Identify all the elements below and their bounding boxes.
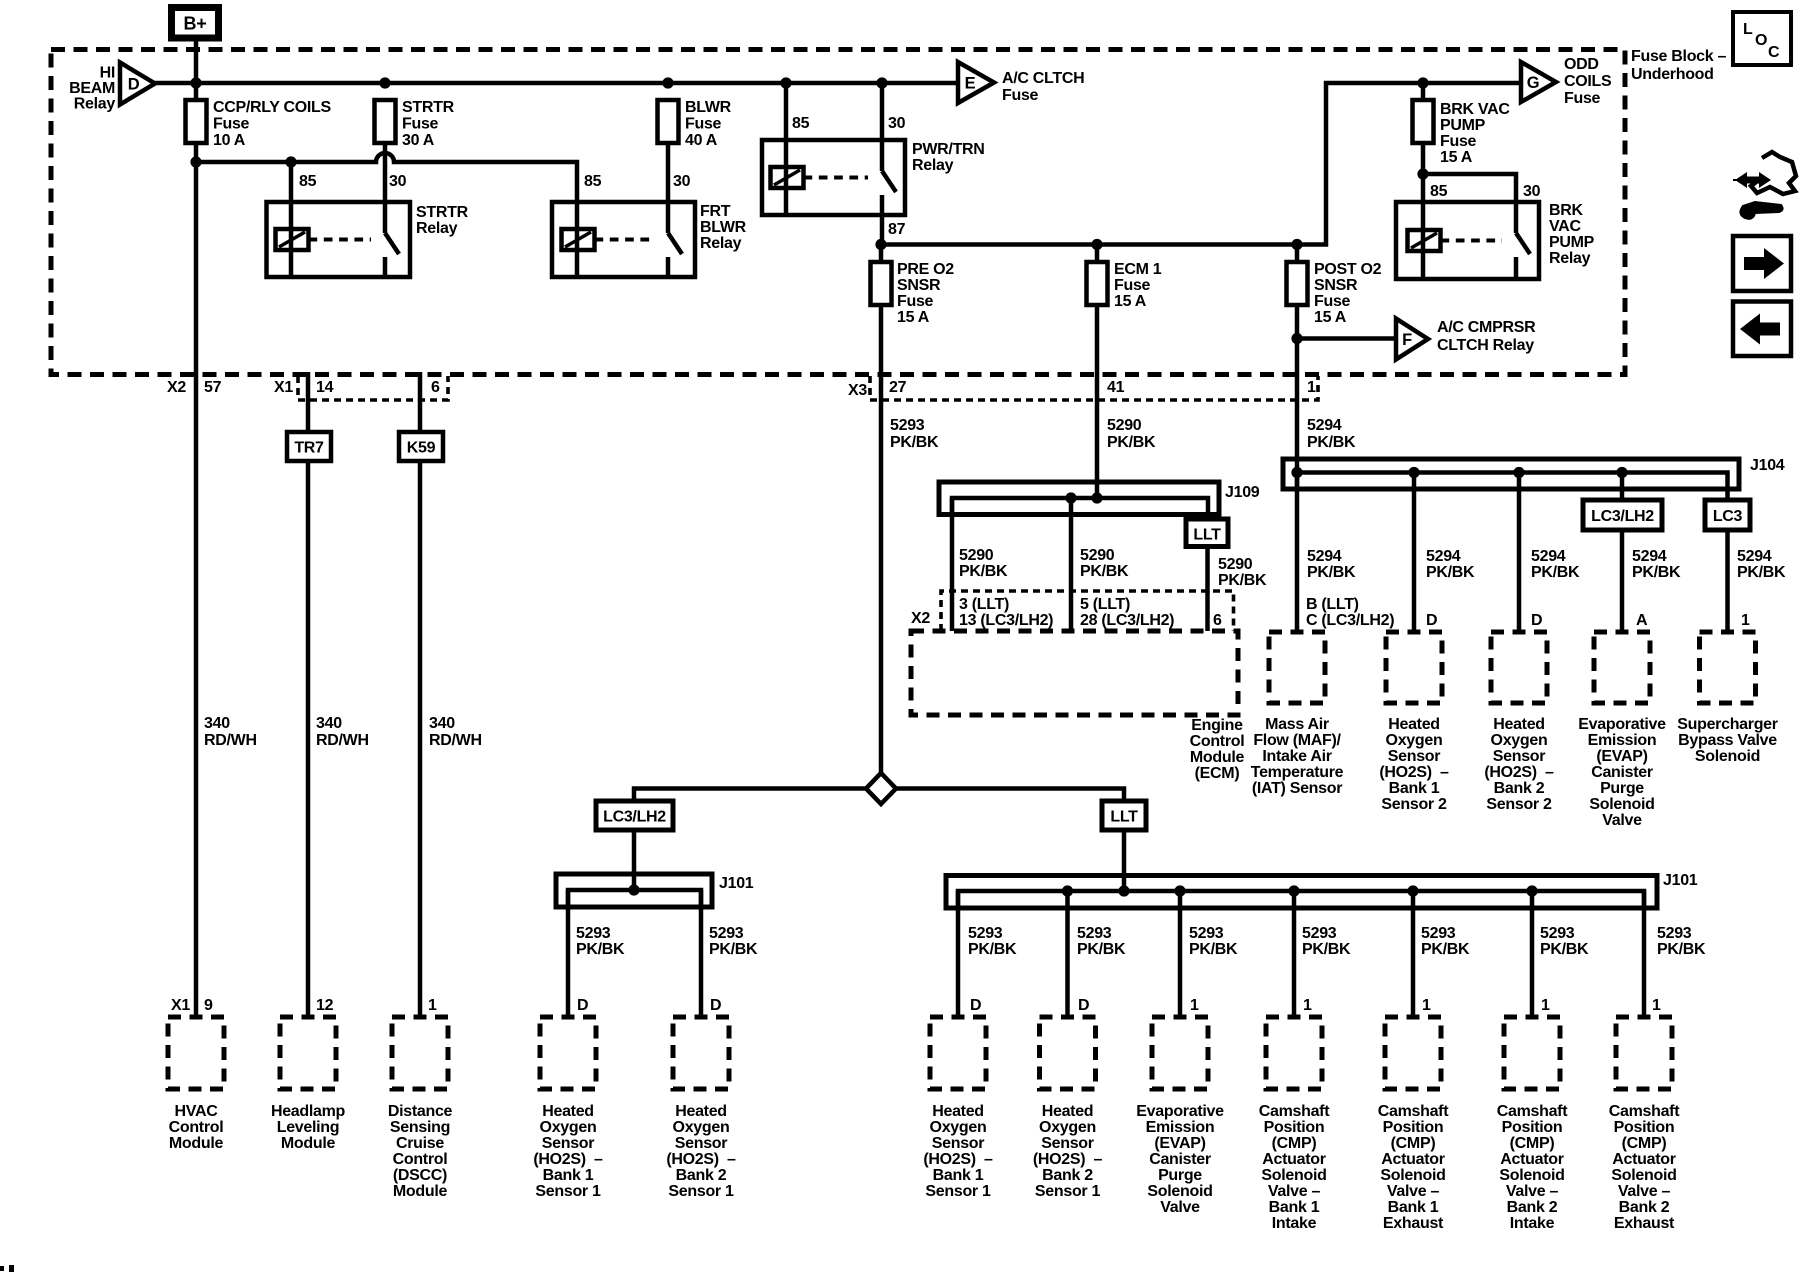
svg-text:1: 1 bbox=[1190, 997, 1199, 1014]
svg-text:87: 87 bbox=[888, 221, 906, 238]
svg-text:PK/BK: PK/BK bbox=[1080, 563, 1129, 580]
component dashed box Heated Oxygen Sensor HO2S Bank2 Sensor2 bbox=[1491, 632, 1547, 703]
svg-text:5293: 5293 bbox=[576, 925, 611, 942]
svg-text:85: 85 bbox=[792, 115, 810, 132]
svg-text:Fuse Block –: Fuse Block – bbox=[1631, 48, 1727, 65]
svg-text:(HO2S) –: (HO2S) – bbox=[1484, 764, 1554, 781]
junction node PRE O2 fuse top bbox=[875, 239, 886, 250]
svg-text:15 A: 15 A bbox=[1314, 309, 1347, 326]
svg-text:Solenoid: Solenoid bbox=[1611, 1167, 1676, 1184]
svg-text:Purge: Purge bbox=[1600, 780, 1644, 797]
svg-text:Relay: Relay bbox=[700, 235, 742, 252]
relay STRTR bbox=[267, 202, 411, 277]
svg-text:Oxygen: Oxygen bbox=[673, 1119, 730, 1136]
splice box LC3/LH2 lower bbox=[596, 801, 673, 830]
svg-text:BRK VAC: BRK VAC bbox=[1440, 101, 1510, 118]
junction node STRTR fuse bbox=[379, 77, 390, 88]
svg-text:Module: Module bbox=[169, 1135, 224, 1152]
svg-text:Actuator: Actuator bbox=[1262, 1151, 1325, 1168]
fuse CCP/RLY COILS 10A bbox=[186, 100, 207, 143]
svg-text:57: 57 bbox=[204, 379, 222, 396]
svg-text:D: D bbox=[128, 76, 140, 94]
wire diamond to LC3/LH2 splice bbox=[634, 789, 866, 802]
svg-text:30: 30 bbox=[673, 173, 691, 190]
svg-text:15 A: 15 A bbox=[897, 309, 930, 326]
svg-text:Sensor: Sensor bbox=[675, 1135, 728, 1152]
svg-text:Bank 1: Bank 1 bbox=[1269, 1199, 1320, 1216]
junction node J109 branch bbox=[1065, 492, 1076, 503]
wire J104 to supercharger bypass solenoid bbox=[1725, 530, 1730, 631]
svg-text:Bank 1: Bank 1 bbox=[543, 1167, 594, 1184]
relay PWR/TRN bbox=[762, 140, 905, 215]
svg-text:B+: B+ bbox=[184, 14, 207, 34]
svg-text:Sensor: Sensor bbox=[1493, 748, 1546, 765]
component dashed box CMP Actuator Solenoid Valve Bank1 Intake bbox=[1266, 1017, 1322, 1089]
svg-text:PK/BK: PK/BK bbox=[1077, 941, 1126, 958]
svg-text:Leveling: Leveling bbox=[277, 1119, 340, 1136]
svg-text:C: C bbox=[1768, 44, 1780, 61]
svg-text:Bank 2: Bank 2 bbox=[1494, 780, 1545, 797]
svg-text:Bank 2: Bank 2 bbox=[676, 1167, 727, 1184]
splice diamond on PRE O2 circuit bbox=[866, 773, 896, 804]
svg-text:30: 30 bbox=[1523, 183, 1541, 200]
svg-text:Oxygen: Oxygen bbox=[1386, 732, 1443, 749]
wire J101 to EVAP valve bbox=[1178, 891, 1183, 1017]
svg-text:Bank 1: Bank 1 bbox=[1389, 780, 1440, 797]
svg-text:E: E bbox=[965, 75, 976, 93]
svg-text:340: 340 bbox=[204, 715, 230, 732]
svg-text:6: 6 bbox=[1213, 612, 1222, 629]
svg-text:Flow (MAF)/: Flow (MAF)/ bbox=[1253, 732, 1341, 749]
svg-text:Fuse: Fuse bbox=[213, 116, 250, 133]
svg-text:1: 1 bbox=[1303, 997, 1312, 1014]
svg-text:Valve –: Valve – bbox=[1387, 1183, 1440, 1200]
svg-text:Fuse: Fuse bbox=[685, 116, 722, 133]
svg-text:Heated: Heated bbox=[542, 1103, 594, 1120]
triangle F A/C CMPRSR CLTCH Relay bbox=[1396, 319, 1428, 360]
svg-text:Bank 2: Bank 2 bbox=[1619, 1199, 1670, 1216]
wire J101 to CMP bank2 exhaust bbox=[1642, 891, 1647, 1017]
svg-text:Position: Position bbox=[1264, 1119, 1325, 1136]
svg-text:Exhaust: Exhaust bbox=[1383, 1215, 1444, 1232]
svg-text:Valve –: Valve – bbox=[1268, 1183, 1321, 1200]
junction node BLWR fuse bbox=[662, 77, 673, 88]
svg-text:CLTCH Relay: CLTCH Relay bbox=[1437, 337, 1534, 354]
svg-text:85: 85 bbox=[1430, 183, 1448, 200]
wire J104 to HO2S bank1 sensor2 bbox=[1412, 473, 1417, 632]
svg-text:PK/BK: PK/BK bbox=[576, 941, 625, 958]
svg-text:5290: 5290 bbox=[1080, 547, 1115, 564]
back arrow box bbox=[1733, 302, 1791, 357]
wire BRK VAC fuse to relay bbox=[1421, 143, 1426, 202]
svg-text:PK/BK: PK/BK bbox=[890, 434, 939, 451]
junction block J104 bbox=[1283, 459, 1739, 489]
junction block J101 left bbox=[556, 874, 712, 907]
junction node J101 right bbox=[1062, 885, 1073, 896]
svg-text:(CMP): (CMP) bbox=[1391, 1135, 1436, 1152]
wire PRE O2 fuse down to splice diamond bbox=[879, 305, 884, 773]
junction node feed to relay coils bbox=[190, 156, 201, 167]
svg-text:Fuse: Fuse bbox=[1440, 133, 1477, 150]
svg-text:Solenoid: Solenoid bbox=[1695, 748, 1760, 765]
fuse block underhood dashed enclosure bbox=[51, 50, 1625, 375]
svg-text:D: D bbox=[1531, 612, 1542, 629]
svg-text:Sensor 2: Sensor 2 bbox=[1381, 796, 1447, 813]
svg-text:PK/BK: PK/BK bbox=[959, 563, 1008, 580]
svg-text:5294: 5294 bbox=[1531, 548, 1566, 565]
junction node J101 right bbox=[1288, 885, 1299, 896]
svg-text:F: F bbox=[1402, 331, 1412, 349]
svg-text:X1: X1 bbox=[171, 997, 190, 1014]
svg-text:PK/BK: PK/BK bbox=[1657, 941, 1706, 958]
svg-text:J101: J101 bbox=[719, 875, 754, 892]
svg-text:Valve –: Valve – bbox=[1506, 1183, 1559, 1200]
wire J104 to EVAP valve bbox=[1620, 473, 1625, 501]
component dashed box Supercharger Bypass Valve Solenoid bbox=[1700, 632, 1756, 703]
svg-text:Heated: Heated bbox=[675, 1103, 727, 1120]
svg-text:D: D bbox=[1426, 612, 1437, 629]
svg-text:Evaporative: Evaporative bbox=[1578, 716, 1666, 733]
connector X3 pocket dashed bbox=[870, 376, 1318, 400]
svg-text:Camshaft: Camshaft bbox=[1497, 1103, 1568, 1120]
svg-text:Intake: Intake bbox=[1272, 1215, 1317, 1232]
svg-text:1: 1 bbox=[1541, 997, 1550, 1014]
svg-text:85: 85 bbox=[584, 173, 602, 190]
junction node J101 left feed bbox=[628, 884, 639, 895]
fuse PRE O2 SNSR 15A bbox=[879, 245, 884, 263]
fuse BRK VAC PUMP 15A bbox=[1421, 83, 1426, 100]
fuse ECM 1 15A bbox=[1095, 245, 1100, 263]
svg-text:5293: 5293 bbox=[1540, 925, 1575, 942]
component dashed box HO2S Bank1 Sensor1 left bbox=[540, 1017, 596, 1089]
component dashed box HVAC Control Module bbox=[168, 1017, 224, 1089]
svg-text:RD/WH: RD/WH bbox=[429, 732, 482, 749]
wire J104 to MAF/IAT sensor bbox=[1295, 473, 1300, 632]
svg-text:(EVAP): (EVAP) bbox=[1596, 748, 1647, 765]
svg-text:(HO2S) –: (HO2S) – bbox=[1379, 764, 1449, 781]
wire STRTR fuse to relay 30 bbox=[383, 143, 388, 202]
svg-text:5 (LLT): 5 (LLT) bbox=[1080, 596, 1130, 613]
fuse BLWR 40A bbox=[658, 100, 679, 143]
svg-text:SNSR: SNSR bbox=[1314, 277, 1358, 294]
svg-text:HVAC: HVAC bbox=[175, 1103, 219, 1120]
svg-text:Fuse: Fuse bbox=[1564, 90, 1601, 107]
splice box K59 bbox=[399, 432, 443, 461]
svg-text:(HO2S) –: (HO2S) – bbox=[666, 1151, 736, 1168]
wire LLT to ECM pin 6 bbox=[1205, 547, 1210, 632]
svg-text:Oxygen: Oxygen bbox=[540, 1119, 597, 1136]
svg-text:Sensor 2: Sensor 2 bbox=[1486, 796, 1552, 813]
svg-text:Solenoid: Solenoid bbox=[1380, 1167, 1445, 1184]
junction node ECM1 fuse top bbox=[1091, 239, 1102, 250]
svg-text:J109: J109 bbox=[1225, 484, 1260, 501]
splice box LC3 on J104 bbox=[1705, 500, 1750, 530]
wire STRTR relay 85 up bbox=[289, 162, 294, 202]
svg-text:COILS: COILS bbox=[1564, 73, 1612, 90]
svg-text:Distance: Distance bbox=[388, 1103, 453, 1120]
component dashed box CMP Actuator Solenoid Valve Bank2 Intake bbox=[1504, 1017, 1560, 1089]
svg-text:1: 1 bbox=[1422, 997, 1431, 1014]
svg-text:Module: Module bbox=[281, 1135, 336, 1152]
svg-text:PUMP: PUMP bbox=[1440, 117, 1486, 134]
svg-text:Engine: Engine bbox=[1191, 717, 1243, 734]
svg-text:X3: X3 bbox=[848, 382, 867, 399]
svg-text:LLT: LLT bbox=[1193, 527, 1221, 544]
svg-text:(HO2S) –: (HO2S) – bbox=[533, 1151, 603, 1168]
component dashed box CMP Actuator Solenoid Valve Bank1 Exhaust bbox=[1385, 1017, 1441, 1089]
svg-text:PK/BK: PK/BK bbox=[1189, 941, 1238, 958]
wire J101 to CMP bank1 intake bbox=[1292, 891, 1297, 1017]
svg-text:5294: 5294 bbox=[1632, 548, 1667, 565]
svg-text:Actuator: Actuator bbox=[1500, 1151, 1563, 1168]
svg-text:(CMP): (CMP) bbox=[1510, 1135, 1555, 1152]
svg-text:Supercharger: Supercharger bbox=[1677, 716, 1778, 733]
svg-text:Sensor 1: Sensor 1 bbox=[535, 1183, 601, 1200]
wire J104 to HO2S bank2 sensor2 bbox=[1517, 473, 1522, 632]
svg-text:Bank 2: Bank 2 bbox=[1507, 1199, 1558, 1216]
svg-text:K59: K59 bbox=[407, 440, 436, 457]
svg-text:1: 1 bbox=[1307, 379, 1316, 396]
svg-text:(ECM): (ECM) bbox=[1195, 765, 1240, 782]
svg-text:(IAT) Sensor: (IAT) Sensor bbox=[1252, 780, 1342, 797]
wire J101 to HO2S bank1 sensor1 bbox=[956, 891, 961, 1017]
svg-text:5290: 5290 bbox=[1107, 417, 1142, 434]
svg-text:3 (LLT): 3 (LLT) bbox=[959, 596, 1009, 613]
splice box LLT lower bbox=[1102, 801, 1146, 830]
svg-text:Camshaft: Camshaft bbox=[1609, 1103, 1680, 1120]
svg-text:30: 30 bbox=[888, 115, 906, 132]
svg-text:Sensor 1: Sensor 1 bbox=[668, 1183, 734, 1200]
svg-text:85: 85 bbox=[299, 173, 317, 190]
wire B+ down to bus bbox=[194, 41, 199, 100]
wire to A/C CMPRSR CLTCH relay bbox=[1297, 336, 1396, 341]
svg-text:LC3/LH2: LC3/LH2 bbox=[603, 809, 666, 826]
svg-text:Cruise: Cruise bbox=[396, 1135, 444, 1152]
wire PWR/TRN 87 down bbox=[880, 215, 885, 245]
svg-text:Control: Control bbox=[1190, 733, 1245, 750]
svg-text:Solenoid: Solenoid bbox=[1261, 1167, 1326, 1184]
svg-text:B (LLT): B (LLT) bbox=[1306, 596, 1359, 613]
svg-text:VAC: VAC bbox=[1549, 218, 1581, 235]
wire coil feed with hop over STRTR-30 wire bbox=[196, 153, 577, 202]
svg-text:41: 41 bbox=[1107, 379, 1125, 396]
svg-text:(EVAP): (EVAP) bbox=[1154, 1135, 1205, 1152]
svg-text:L: L bbox=[1743, 21, 1753, 38]
component dashed box CMP Actuator Solenoid Valve Bank2 Exhaust bbox=[1616, 1017, 1672, 1089]
svg-text:PK/BK: PK/BK bbox=[709, 941, 758, 958]
svg-text:5293: 5293 bbox=[1657, 925, 1692, 942]
svg-text:PK/BK: PK/BK bbox=[1218, 572, 1267, 589]
svg-text:POST O2: POST O2 bbox=[1314, 261, 1382, 278]
svg-text:J104: J104 bbox=[1750, 457, 1785, 474]
svg-text:5293: 5293 bbox=[1302, 925, 1337, 942]
junction node BRK VAC relay 85/30 split bbox=[1417, 168, 1428, 179]
svg-text:PK/BK: PK/BK bbox=[1426, 564, 1475, 581]
component dashed box Headlamp Leveling Module bbox=[280, 1017, 336, 1089]
svg-text:FRT: FRT bbox=[700, 203, 731, 220]
svg-text:(CMP): (CMP) bbox=[1622, 1135, 1667, 1152]
junction node J104 bbox=[1616, 467, 1627, 478]
svg-text:340: 340 bbox=[429, 715, 455, 732]
svg-text:Control: Control bbox=[169, 1119, 224, 1136]
splice box LLT on J109 bbox=[1186, 519, 1228, 547]
svg-text:BEAM: BEAM bbox=[69, 80, 115, 97]
Engine Control Module ECM dashed box bbox=[911, 631, 1238, 715]
wire 6 down to DSCC module bbox=[418, 372, 423, 432]
svg-text:Fuse: Fuse bbox=[897, 293, 934, 310]
junction node J101 right bbox=[1526, 885, 1537, 896]
wire J101 to CMP bank2 intake bbox=[1530, 891, 1535, 1017]
svg-text:Headlamp: Headlamp bbox=[271, 1103, 346, 1120]
wire LC3/LH2 to J101 left bbox=[632, 830, 637, 890]
svg-text:Fuse: Fuse bbox=[1002, 87, 1039, 104]
svg-text:PRE O2: PRE O2 bbox=[897, 261, 954, 278]
svg-text:PK/BK: PK/BK bbox=[1307, 564, 1356, 581]
svg-text:Oxygen: Oxygen bbox=[1039, 1119, 1096, 1136]
svg-text:PK/BK: PK/BK bbox=[1632, 564, 1681, 581]
svg-text:Bank 1: Bank 1 bbox=[1388, 1199, 1439, 1216]
relay FRT BLWR bbox=[552, 202, 695, 277]
svg-text:LLT: LLT bbox=[1110, 809, 1138, 826]
svg-text:5293: 5293 bbox=[1421, 925, 1456, 942]
LOC legend box bbox=[1733, 12, 1791, 65]
svg-text:15 A: 15 A bbox=[1114, 293, 1147, 310]
svg-text:BRK: BRK bbox=[1549, 202, 1584, 219]
svg-text:5290: 5290 bbox=[1218, 556, 1253, 573]
junction node at B+ drop bbox=[190, 77, 201, 88]
svg-text:5293: 5293 bbox=[1077, 925, 1112, 942]
junction node J101 right bbox=[1407, 885, 1418, 896]
wire J109 to ECM pin 3 bbox=[950, 498, 955, 631]
svg-text:(HO2S) –: (HO2S) – bbox=[923, 1151, 993, 1168]
wire J101 to HO2S bank2 sensor1 bbox=[1065, 891, 1070, 1017]
svg-text:PK/BK: PK/BK bbox=[968, 941, 1017, 958]
svg-text:1: 1 bbox=[1652, 997, 1661, 1014]
svg-text:5294: 5294 bbox=[1426, 548, 1461, 565]
svg-text:PK/BK: PK/BK bbox=[1737, 564, 1786, 581]
svg-text:Fuse: Fuse bbox=[1314, 293, 1351, 310]
svg-text:5294: 5294 bbox=[1737, 548, 1772, 565]
svg-text:Fuse: Fuse bbox=[402, 116, 439, 133]
wire X1-14 down to headlamp module bbox=[306, 372, 311, 432]
junction node J101 right bbox=[1118, 885, 1129, 896]
svg-text:30: 30 bbox=[389, 173, 407, 190]
svg-text:Valve: Valve bbox=[1160, 1199, 1200, 1216]
svg-text:X1: X1 bbox=[274, 379, 293, 396]
wire PWR/TRN 85 up to bus bbox=[784, 83, 789, 140]
svg-text:Camshaft: Camshaft bbox=[1378, 1103, 1449, 1120]
wire LLT to J101 right bbox=[1122, 830, 1127, 891]
component dashed box Distance Sensing Cruise Control DSCC Module bbox=[392, 1017, 448, 1089]
svg-text:Exhaust: Exhaust bbox=[1614, 1215, 1675, 1232]
svg-text:Emission: Emission bbox=[1588, 732, 1657, 749]
svg-text:Sensor: Sensor bbox=[1388, 748, 1441, 765]
svg-text:Camshaft: Camshaft bbox=[1259, 1103, 1330, 1120]
svg-text:C (LC3/LH2): C (LC3/LH2) bbox=[1306, 612, 1394, 629]
component dashed box Mass Air Flow (MAF)/Intake Air Temperature (IAT) Sensor bbox=[1269, 632, 1325, 703]
svg-text:Valve: Valve bbox=[1602, 812, 1642, 829]
svg-text:G: G bbox=[1527, 74, 1540, 92]
svg-text:Actuator: Actuator bbox=[1381, 1151, 1444, 1168]
svg-text:LC3/LH2: LC3/LH2 bbox=[1591, 508, 1654, 525]
svg-text:A: A bbox=[1636, 612, 1648, 629]
component dashed box EVAP Canister Purge Solenoid Valve bbox=[1594, 632, 1650, 703]
svg-text:Relay: Relay bbox=[416, 220, 458, 237]
wire POST O2 fuse down to J104 bbox=[1295, 305, 1300, 473]
svg-text:12: 12 bbox=[316, 997, 334, 1014]
svg-text:5293: 5293 bbox=[709, 925, 744, 942]
svg-text:Position: Position bbox=[1502, 1119, 1563, 1136]
wire CCP fuse down to X2-57 and HVAC bbox=[194, 143, 199, 1017]
svg-text:27: 27 bbox=[889, 379, 907, 396]
svg-text:14: 14 bbox=[316, 379, 334, 396]
svg-text:15 A: 15 A bbox=[1440, 149, 1473, 166]
triangle E A/C CLTCH Fuse bbox=[958, 62, 994, 103]
junction node STRTR relay 85 bbox=[285, 156, 296, 167]
svg-text:Intake Air: Intake Air bbox=[1262, 748, 1331, 765]
triangle D HI BEAM Relay feed bbox=[120, 63, 155, 105]
connector X2 ECM pocket dashed bbox=[941, 591, 1234, 631]
wire J101 to CMP bank1 exhaust bbox=[1411, 891, 1416, 1017]
svg-text:Solenoid: Solenoid bbox=[1589, 796, 1654, 813]
svg-text:A/C CMPRSR: A/C CMPRSR bbox=[1437, 319, 1536, 336]
svg-text:Underhood: Underhood bbox=[1631, 66, 1714, 83]
svg-text:Actuator: Actuator bbox=[1612, 1151, 1675, 1168]
svg-text:STRTR: STRTR bbox=[402, 99, 455, 116]
svg-text:Relay: Relay bbox=[912, 157, 954, 174]
svg-text:Module: Module bbox=[393, 1183, 448, 1200]
component dashed box HO2S Bank1 Sensor1 right bbox=[930, 1017, 986, 1089]
svg-text:TR7: TR7 bbox=[294, 440, 324, 457]
svg-text:RD/WH: RD/WH bbox=[316, 732, 369, 749]
svg-text:Bank 1: Bank 1 bbox=[933, 1167, 984, 1184]
svg-text:D: D bbox=[577, 997, 588, 1014]
fuse STRTR 30A bbox=[375, 100, 396, 143]
svg-text:PK/BK: PK/BK bbox=[1531, 564, 1580, 581]
svg-text:Bank 2: Bank 2 bbox=[1042, 1167, 1093, 1184]
ignition feed wire 87 across and up to ODD COILS bbox=[882, 83, 1521, 245]
wire J101 to HO2S bank2 sensor1 left bbox=[699, 890, 704, 1017]
svg-text:Mass Air: Mass Air bbox=[1265, 716, 1329, 733]
svg-text:Temperature: Temperature bbox=[1251, 764, 1344, 781]
junction node POST O2 fuse top bbox=[1291, 239, 1302, 250]
svg-text:PK/BK: PK/BK bbox=[1421, 941, 1470, 958]
main power bus wire y83 bbox=[155, 81, 958, 86]
svg-text:(DSCC): (DSCC) bbox=[393, 1167, 447, 1184]
svg-text:PK/BK: PK/BK bbox=[1302, 941, 1351, 958]
svg-text:O: O bbox=[1755, 32, 1767, 49]
svg-text:1: 1 bbox=[428, 997, 437, 1014]
svg-text:(CMP): (CMP) bbox=[1272, 1135, 1317, 1152]
forward arrow box bbox=[1733, 236, 1791, 291]
svg-text:5293: 5293 bbox=[890, 417, 925, 434]
junction node BRK VAC fuse top bbox=[1417, 77, 1428, 88]
navigation scribble icon bbox=[1733, 152, 1796, 219]
svg-text:ECM 1: ECM 1 bbox=[1114, 261, 1162, 278]
svg-text:1: 1 bbox=[1741, 612, 1750, 629]
svg-text:Sensor: Sensor bbox=[932, 1135, 985, 1152]
wire ECM1 fuse down to J109 bbox=[1095, 305, 1100, 498]
connector X1 pocket dashed bbox=[298, 376, 448, 400]
svg-text:(HO2S) –: (HO2S) – bbox=[1033, 1151, 1103, 1168]
splice box LC3/LH2 on J104 bbox=[1583, 500, 1662, 530]
svg-text:Sensor: Sensor bbox=[1041, 1135, 1094, 1152]
svg-text:RD/WH: RD/WH bbox=[204, 732, 257, 749]
svg-text:Oxygen: Oxygen bbox=[1491, 732, 1548, 749]
svg-text:Evaporative: Evaporative bbox=[1136, 1103, 1224, 1120]
svg-text:D: D bbox=[710, 997, 721, 1014]
junction node J104 bbox=[1513, 467, 1524, 478]
